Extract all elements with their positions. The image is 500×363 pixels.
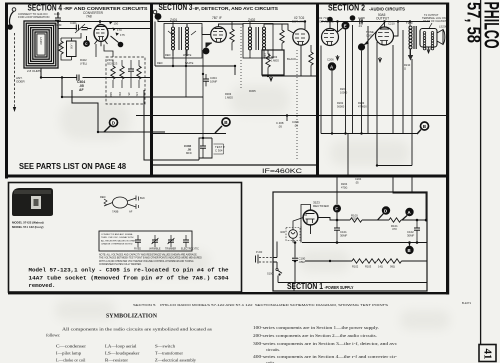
svg-text:R303: R303 [225, 92, 232, 96]
resistor in Z400 [111, 66, 115, 79]
svg-text:RED: RED [100, 195, 106, 199]
avc return wire [62, 78, 203, 98]
svg-text:SYMBOLIZATION: SYMBOLIZATION [106, 313, 157, 320]
test point blob C [83, 40, 90, 47]
svg-text:B: B [408, 248, 411, 253]
Z402 leads [250, 22, 264, 59]
svg-text:R103: R103 [365, 265, 372, 269]
grid blob on 1st audio [327, 17, 333, 23]
svg-text:SECTION 3: SECTION 3 [159, 3, 193, 12]
section divider 3/2 [316, 4, 319, 176]
C302 capacitor branch [199, 138, 212, 160]
filter resistor R101 [389, 218, 401, 222]
test point blob top-left of section 3 [155, 13, 162, 20]
tube grid dashes [96, 30, 105, 34]
arrow on volume bus [269, 76, 272, 81]
wire loop top to tube grid [58, 12, 151, 24]
svg-text:14Ω: 14Ω [378, 265, 383, 269]
svg-text:IF: IF [219, 16, 222, 20]
wire R100 to R101 [362, 219, 389, 221]
tube relocation pictorial [113, 197, 128, 208]
resistor R401 vertical [59, 41, 63, 54]
svg-text:99Ω: 99Ω [390, 265, 395, 269]
divider wires down [353, 25, 369, 134]
svg-text:1 MEG: 1 MEG [225, 95, 233, 99]
rectifier cathode drop [301, 225, 311, 243]
svg-text:R303: R303 [271, 55, 278, 59]
arrow on cathode wire [336, 55, 339, 60]
svg-text:T—transformer: T—transformer [155, 350, 184, 355]
arrow symbol mid [378, 57, 381, 62]
Z401 core [179, 27, 182, 50]
tuning capacitor C401 [76, 25, 78, 31]
svg-text:7B7: 7B7 [212, 16, 218, 20]
svg-text:41: 41 [482, 349, 494, 360]
coupling capacitor C208 [360, 19, 362, 25]
antenna terminal blob [7, 24, 13, 30]
svg-text:.05: .05 [278, 124, 282, 128]
test point circle F with pointer [417, 130, 421, 135]
pointer from text to transformer [428, 23, 432, 30]
svg-text:S—switch: S—switch [155, 343, 175, 348]
svg-text:FOR LOOP OPERATION: FOR LOOP OPERATION [18, 15, 49, 19]
Z402 primary coil [248, 27, 251, 50]
volume control diagonal [364, 22, 385, 45]
svg-text:100-series components are in S: 100-series components are in Section 1—t… [253, 325, 379, 330]
svg-text:2.8 OHMS: 2.8 OHMS [27, 69, 41, 73]
svg-text:CONNECT IF AND AVC SIGNAL: CONNECT IF AND AVC SIGNAL [101, 233, 134, 236]
page frame top border [5, 3, 449, 5]
Z401 1st IF transformer box [164, 24, 202, 59]
legend capacitor variable [152, 240, 158, 242]
Z401 leads [173, 22, 187, 57]
oscillator feedback wire [72, 90, 165, 132]
B+ bus from rectifier [318, 218, 350, 221]
philco margin rule [480, 0, 482, 345]
loop aerial LA400 [24, 21, 58, 68]
output tube cathode wires down [377, 30, 412, 166]
svg-text:R206: R206 [340, 87, 347, 91]
svg-text:LS—loudspeaker: LS—loudspeaker [105, 350, 140, 355]
svg-text:MODEL 57-I22 (Walnut): MODEL 57-I22 (Walnut) [12, 221, 44, 225]
svg-text:THE VOLTAGES BETWEEN TEST POIN: THE VOLTAGES BETWEEN TEST POINT B AND OT… [99, 257, 202, 260]
diode load network box [262, 50, 284, 75]
ground bus power supply [302, 242, 427, 244]
filter resistor R100 [350, 218, 362, 222]
svg-text:C40: C40 [54, 12, 60, 16]
svg-text:B-2271: B-2271 [462, 301, 471, 305]
svg-text:MFD: MFD [186, 151, 192, 155]
svg-text:LA400: LA400 [39, 37, 43, 45]
test point circle B with pointer [215, 126, 222, 133]
junction blob on top bus [350, 15, 356, 21]
svg-text:47K: 47K [135, 92, 138, 97]
svg-text:C206: C206 [327, 58, 334, 62]
svg-text:.05M: .05M [299, 260, 306, 264]
test point blob B below ground bus [405, 246, 413, 254]
svg-text:R210: R210 [404, 63, 411, 67]
volume bus [262, 75, 316, 77]
bottom border of schematic area [8, 292, 449, 294]
svg-text:-POWER SUPPLY: -POWER SUPPLY [325, 285, 354, 290]
capacitor in Z400 [128, 69, 134, 71]
svg-text:L400: L400 [70, 44, 73, 50]
svg-text:BLACK: BLACK [287, 57, 296, 61]
svg-text:175: 175 [120, 33, 125, 37]
test point blob D [382, 206, 390, 214]
tube pin drop wires [61, 33, 113, 60]
svg-text:150: 150 [114, 22, 119, 26]
Z402 secondary coil [262, 27, 265, 50]
Z400 oscillator assembly dashed box [106, 57, 145, 104]
svg-text:FIXED: FIXED [134, 248, 141, 251]
page frame right border [446, 3, 449, 295]
top block bottom border [5, 175, 449, 178]
svg-text:C 304: C 304 [215, 149, 223, 153]
test point blob right [118, 42, 124, 48]
svg-text:VARIABLE: VARIABLE [149, 248, 161, 251]
svg-text:R305: R305 [249, 89, 256, 93]
rectifier tube 35Z3 [303, 210, 318, 225]
svg-text:56000: 56000 [337, 104, 345, 108]
svg-text:Z401: Z401 [170, 18, 177, 22]
test point blob A [405, 208, 413, 216]
trimmer capacitor C400 [55, 18, 61, 20]
plate wire to section 3 [108, 28, 152, 30]
svg-text:C204: C204 [355, 177, 362, 181]
heater wire [305, 260, 427, 262]
wire lamp [293, 218, 303, 243]
test point blob E [342, 22, 350, 30]
heater string resistors R102 R103 [352, 259, 364, 263]
page frame left border [5, 3, 8, 179]
wire loop bottom lead [41, 68, 77, 78]
svg-text:E: E [344, 23, 347, 28]
dashed vertical shield [296, 50, 298, 160]
svg-text:C210: C210 [388, 22, 395, 26]
svg-text:200-series components are in S: 200-series components are in Section 2—t… [253, 333, 377, 338]
T200 leads [409, 22, 411, 56]
svg-text:AF: AF [79, 88, 84, 92]
svg-text:D: D [384, 208, 387, 213]
svg-text:470Ω: 470Ω [341, 185, 347, 189]
svg-text:circuits.: circuits. [266, 347, 280, 352]
svg-text:S100: S100 [267, 272, 274, 276]
wire from E blob down [345, 30, 347, 134]
test point blob F above rectifier [333, 205, 341, 213]
svg-text:7A0B: 7A0B [112, 210, 119, 214]
scan tone patches [0, 0, 1, 1]
converter tube envelope [94, 25, 108, 42]
svg-text:P-I00: P-I00 [256, 250, 263, 254]
test point circle D with pointer [104, 125, 111, 132]
radio cabinet photo [12, 188, 53, 216]
tube pin stubs [95, 40, 108, 46]
svg-text:33Ω: 33Ω [109, 92, 112, 97]
resistor R302 vertical [280, 30, 284, 43]
svg-text:RECTIFIER: RECTIFIER [313, 204, 330, 208]
svg-text:SECTION 2: SECTION 2 [328, 4, 365, 13]
vertical wire to avc bus [186, 50, 235, 75]
legend box [99, 231, 192, 251]
svg-text:CONVERTER: CONVERTER [83, 11, 104, 15]
trimmer arrows on Z401 [168, 31, 196, 35]
svg-text:Z402: Z402 [248, 18, 255, 22]
svg-text:NOTE: ALL VOLTAGES AND CAPACIT: NOTE: ALL VOLTAGES AND CAPACITY AND RESI… [99, 254, 198, 257]
svg-text:TRIM: TRIM [54, 23, 62, 27]
svg-text:30MF: 30MF [340, 233, 347, 237]
svg-text:15K: 15K [118, 92, 121, 97]
IF strip line [153, 164, 316, 166]
capacitor C404 [77, 75, 79, 81]
svg-text:-IF, DETECTOR, AND AVC CIRCUIT: -IF, DETECTOR, AND AVC CIRCUITS [193, 6, 278, 11]
svg-text:I—pilot lamp: I—pilot lamp [56, 350, 81, 355]
svg-text:ALL RECEIVER VALUES IN OHMS: ALL RECEIVER VALUES IN OHMS [101, 239, 136, 242]
svg-text:C209: C209 [366, 33, 373, 37]
svg-text:Z—electrical assembly: Z—electrical assembly [155, 357, 197, 362]
capacitor C304 electrolytic [203, 79, 209, 81]
svg-text:L—choke or coil: L—choke or coil [56, 357, 86, 362]
extra feed wire [347, 134, 349, 177]
7B7 grid wire [187, 24, 211, 35]
resistor R303 vertical [266, 54, 270, 67]
legend capacitor electrolytic [183, 240, 189, 242]
filter cap C102 [414, 228, 420, 230]
svg-text:.05: .05 [187, 148, 192, 152]
svg-text:470: 470 [392, 227, 397, 231]
svg-text:CHANGE OTHERWISE NOTED: CHANGE OTHERWISE NOTED [101, 243, 133, 246]
7C6 cathode drop [300, 45, 302, 76]
svg-text:R204: R204 [341, 182, 348, 186]
svg-text:LS200: LS200 [439, 25, 448, 29]
svg-text:All components in the radio ci: All components in the radio circuits are… [62, 327, 212, 332]
svg-text:TRIMMER: TRIMMER [165, 248, 176, 251]
wire to C304 [202, 50, 204, 138]
Z401 secondary lower lead [185, 66, 187, 97]
svg-text:SECTION 5 PHILCO RADIO MODE: SECTION 5 PHILCO RADIO MODELS 57-122 AND… [133, 303, 388, 307]
legend capacitor fixed [135, 240, 141, 242]
plate feed drop [304, 22, 306, 30]
svg-text:R401: R401 [59, 42, 62, 48]
svg-text:MODEL 57-I 122 (Ivory): MODEL 57-I 122 (Ivory) [12, 225, 43, 229]
bold model note [29, 267, 230, 290]
cathode return wire [144, 90, 199, 160]
svg-text:follows:: follows: [46, 333, 60, 338]
dial lamp symbol top-left [12, 8, 16, 12]
svg-text:IF=460KC: IF=460KC [262, 168, 302, 175]
Z401 secondary return [172, 50, 174, 66]
line capacitor C100 [294, 243, 296, 258]
B+ wire section 4 [136, 115, 287, 117]
svg-text:ELECTROLYTIC: ELECTROLYTIC [181, 248, 199, 251]
svg-text:R203: R203 [358, 101, 365, 105]
svg-text:7A8: 7A8 [86, 15, 92, 19]
svg-text:10000: 10000 [340, 90, 348, 94]
legend capacitor trimmer [168, 240, 174, 242]
svg-text:ODER: ODER [16, 80, 26, 84]
svg-text:R102: R102 [352, 265, 359, 269]
svg-text:220: 220 [352, 217, 357, 221]
svg-text:C—condenser: C—condenser [56, 343, 87, 348]
voltage arrows at tube [109, 21, 112, 24]
svg-text:C208: C208 [358, 16, 365, 20]
cathode resistor wires [321, 22, 338, 134]
Z402 core [256, 27, 259, 50]
section 3 top B+ bus [158, 20, 305, 22]
switch S100 [273, 242, 277, 269]
svg-text:922-123: 922-123 [107, 61, 118, 65]
svg-text:1 MEG: 1 MEG [271, 58, 279, 62]
antenna lead wire [9, 12, 13, 25]
wire C404 to grid network [83, 77, 151, 79]
svg-text:400-series components are in S: 400-series components are in Section 4—t… [253, 354, 398, 359]
svg-text:I100: I100 [280, 230, 286, 234]
svg-text:BLK: BLK [140, 196, 145, 200]
svg-text:.01: .01 [358, 24, 362, 28]
pilot lamp I100 [286, 228, 300, 241]
test point blob below 7B7 [203, 48, 210, 55]
svg-text:R202: R202 [337, 101, 344, 105]
svg-text:Ω: Ω [404, 66, 406, 70]
plate wire to T200 [385, 22, 399, 37]
photo note box [9, 183, 242, 293]
arrow below T200 [410, 49, 412, 55]
svg-text:REAR OF CHASSIS: REAR OF CHASSIS [423, 19, 447, 23]
svg-text:SECTION 1: SECTION 1 [287, 282, 323, 291]
svg-text:10MF: 10MF [210, 79, 217, 83]
svg-text:Model 57-123,1 only - C305 is: Model 57-123,1 only - C305 is re-located… [29, 267, 230, 274]
svg-text:.05: .05 [294, 123, 298, 127]
B+ bus section 3 [287, 115, 448, 117]
wire tick below power box [293, 283, 295, 292]
wire rectifier filament [301, 205, 311, 227]
arrow below speaker coil [427, 47, 431, 53]
tube plate [97, 26, 105, 28]
filter cap C101 [334, 228, 340, 230]
Z401 primary coil [171, 27, 174, 50]
svg-text:470000: 470000 [358, 104, 367, 108]
7B7 plate wire to Z402 [219, 24, 244, 27]
svg-text:WITH A 20,000 OHMS PER VOLT ME: WITH A 20,000 OHMS PER VOLT METER VOLUME… [99, 260, 194, 263]
svg-text:14A7 tube socket (Removed from: 14A7 tube socket (Removed from pin #7 of… [29, 275, 230, 282]
svg-text:F: F [335, 206, 338, 211]
avc bus wire [155, 65, 235, 67]
top bus section 2 [321, 21, 430, 23]
left feed wire [154, 22, 156, 67]
wire tuning cap to tube [87, 28, 92, 30]
svg-text:AF: AF [129, 210, 133, 214]
resistor R301 vertical [230, 29, 234, 42]
section 1 power supply box [273, 192, 427, 291]
B+ output wire [401, 219, 427, 221]
svg-text:-AUDIO CIRCUITS: -AUDIO CIRCUITS [369, 7, 406, 13]
svg-text:30MF: 30MF [407, 233, 414, 237]
svg-text:THRU .I MF OSC. SIGNAL WITH: THRU .I MF OSC. SIGNAL WITH [101, 236, 134, 239]
audio ground bus [321, 133, 417, 135]
resistor in Z400 [137, 66, 141, 79]
svg-text:R304: R304 [267, 53, 270, 59]
wire drop to B+ [286, 116, 288, 122]
dashed shield line [240, 27, 242, 90]
page number 41 box [479, 345, 496, 362]
svg-text:(YEL): (YEL) [80, 61, 87, 65]
svg-text:C401: C401 [70, 21, 77, 25]
svg-text:removed.: removed. [29, 282, 56, 289]
svg-text:SEE PARTS LIST ON PAGE 48: SEE PARTS LIST ON PAGE 48 [19, 161, 126, 171]
output tube 50A5 [376, 27, 394, 45]
resistor R306 vertical [309, 52, 313, 65]
svg-text:-RF AND CONVERTER CIRCUITS: -RF AND CONVERTER CIRCUITS [64, 6, 149, 12]
external antenna dashed lead [14, 33, 16, 107]
svg-text:RED: RED [157, 61, 163, 65]
ground bus wire [151, 133, 226, 135]
oscillator coil can L400 [67, 41, 77, 57]
svg-text:OUTPUT: OUTPUT [376, 17, 389, 21]
7C6 grid wire from Z402 [264, 24, 294, 33]
resistor in Z400 [120, 66, 124, 79]
lower audio bus [377, 165, 412, 167]
wires from audio section into power supply [337, 176, 426, 222]
svg-text:WH/TE: WH/TE [183, 53, 192, 57]
svg-text:C306: C306 [263, 53, 266, 59]
AC return bus [278, 282, 427, 284]
svg-text:R—resistor: R—resistor [105, 357, 129, 362]
svg-text:RED: RED [165, 53, 171, 57]
tube cathode [98, 37, 104, 41]
svg-text:57, 58: 57, 58 [464, 2, 484, 43]
wire loop to tuning cap [58, 28, 77, 30]
volume control wiper blob [358, 43, 365, 50]
1st audio tube [322, 29, 339, 46]
svg-text:LA—loop aerial: LA—loop aerial [105, 343, 137, 348]
speaker cone [437, 30, 443, 45]
section divider 4/3 [150, 4, 153, 176]
Z402 2nd IF transformer box [243, 24, 273, 59]
Z400 component leads [113, 60, 139, 88]
svg-text:.05: .05 [355, 180, 359, 184]
Z401 secondary coil [185, 27, 188, 50]
